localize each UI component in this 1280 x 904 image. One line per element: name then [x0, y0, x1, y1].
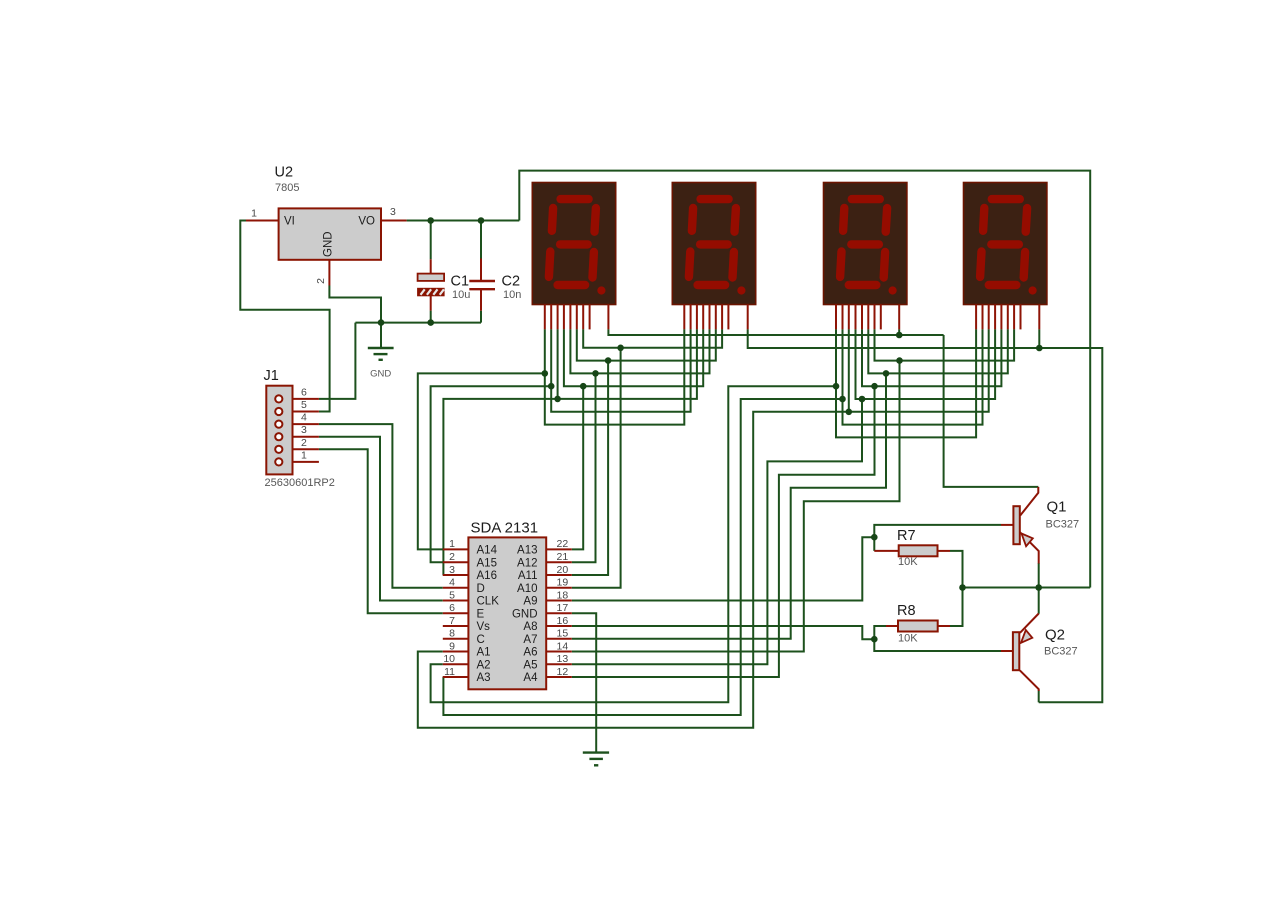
pin stub U1 pin 19 right	[546, 587, 572, 589]
junction D3.com on commons1	[896, 332, 903, 339]
pin stub U2 pin2	[328, 260, 330, 286]
svg-text:10K: 10K	[898, 556, 918, 568]
connector J1 25630601RP2	[264, 368, 335, 489]
wire wire Q2 collector drop	[1038, 691, 1040, 703]
wire wire net seg-f D1.f bus to D2.f	[577, 329, 716, 360]
svg-text:Q1: Q1	[1047, 499, 1067, 516]
ground symbol near U2	[368, 348, 394, 380]
svg-text:10u: 10u	[452, 289, 470, 301]
junction R7 +5V riser	[959, 584, 966, 591]
wire wire U2 pin2 GND to junction and GND symbol	[329, 286, 381, 349]
junction A12 riser on seg-e bus	[592, 370, 599, 377]
wire wire net seg-c A16 riser D1.c to D2.c	[443, 329, 697, 575]
junction C2 on VO row	[478, 217, 485, 224]
svg-text:A11: A11	[518, 570, 538, 582]
junction seg2-b at D3.b	[839, 396, 846, 403]
junction D4.com on commons2	[1036, 345, 1043, 352]
junction GND row at x381	[378, 319, 385, 326]
pin stub U1 pin 21 right	[546, 561, 572, 563]
pin stub U1 pin 8 left	[443, 638, 469, 640]
svg-text:A12: A12	[517, 557, 537, 569]
svg-text:R7: R7	[897, 528, 916, 544]
Q2 emitter lead	[1020, 614, 1039, 633]
pin stub U1 pin 20 right	[546, 574, 572, 576]
wire wire IC pin17 GND to bottom ground	[572, 613, 596, 752]
junction A11 riser on seg-f bus	[605, 357, 612, 364]
pin stub U1 pin 6 left	[443, 612, 469, 614]
svg-text:1: 1	[251, 208, 257, 220]
svg-text:U2: U2	[275, 165, 294, 181]
junction A14 riser on D1.a	[542, 370, 549, 377]
pin stub U1 pin 13 right	[546, 663, 572, 665]
svg-text:GND: GND	[512, 608, 538, 620]
capacitor C2 10n	[469, 274, 521, 302]
junction seg2-a at D3.a	[833, 383, 840, 390]
wire wire net seg2-b A3 wrap to D3.b	[443, 399, 843, 715]
wire wire net seg-e A12 riser	[572, 373, 596, 562]
svg-text:17: 17	[557, 602, 569, 614]
wire wire net seg-f A11 riser	[572, 361, 608, 575]
ground symbol below U1	[583, 753, 609, 766]
junction Q2 base riser	[871, 636, 878, 643]
pin stub J1 pin 4	[284, 423, 319, 425]
junction A4 riser on seg2-e	[871, 383, 878, 390]
svg-text:21: 21	[557, 551, 569, 563]
svg-text:9: 9	[449, 640, 455, 652]
junction A6 riser on seg2-g	[896, 357, 903, 364]
svg-text:13: 13	[557, 653, 569, 665]
wire wire net seg-d D1.d bus to D2.d	[564, 329, 703, 386]
pin stub U1 pin 5 left	[443, 600, 469, 602]
wire wire net seg-e D1.e bus to D2.e	[570, 329, 709, 373]
pin stub U1 pin 4 left	[443, 587, 469, 589]
junction C1 on VO row	[427, 217, 434, 224]
lead C2 bottom	[480, 289, 482, 311]
svg-text:1: 1	[301, 449, 307, 461]
svg-text:SDA 2131: SDA 2131	[471, 520, 539, 537]
svg-text:6: 6	[301, 386, 307, 398]
resistor R8 10K	[897, 603, 938, 645]
svg-text:A3: A3	[477, 672, 491, 684]
svg-text:15: 15	[557, 628, 569, 640]
svg-text:16: 16	[557, 615, 569, 627]
wire wire C1 bottom lead	[430, 311, 432, 323]
svg-text:10: 10	[443, 653, 455, 665]
wire wire net seg-d A13 riser	[572, 386, 583, 549]
Q2 collector lead	[1020, 670, 1039, 691]
junction A5 riser on seg2-d	[859, 396, 866, 403]
svg-text:Q2: Q2	[1045, 627, 1065, 644]
svg-text:A5: A5	[523, 659, 537, 671]
wire wire net seg2-c A1 wrap to D3.c D4.c	[418, 329, 989, 727]
pin stub J1 pin 6	[284, 398, 319, 400]
svg-text:A4: A4	[523, 672, 538, 684]
Q1 collector lead	[1020, 487, 1038, 516]
pin stub U1 pin 17 right	[546, 612, 572, 614]
wire wire Q1 emitter to +5V row	[1038, 563, 1040, 588]
svg-text:10n: 10n	[503, 289, 521, 301]
junction Q1 emitter on +5V row	[1035, 584, 1042, 591]
svg-text:14: 14	[557, 640, 569, 652]
wire wire net seg2-b D3.b drop and bus to D4.b	[843, 329, 983, 424]
pin stub U1 pin 12 right	[546, 676, 572, 678]
pin stub U1 pin 7 left	[443, 625, 469, 627]
7-segment display DS4	[964, 183, 1047, 330]
lead R8 left	[886, 625, 898, 627]
Q1 emitter lead	[1020, 532, 1039, 563]
pin stub U2 pin3	[381, 220, 407, 222]
wire wire net seg2-d A5 riser	[572, 399, 862, 664]
junction Q1 base riser	[871, 534, 878, 541]
svg-text:2: 2	[301, 437, 307, 449]
junction A13 riser on seg-d bus	[580, 383, 587, 390]
svg-text:25630601RP2: 25630601RP2	[265, 477, 335, 489]
svg-text:20: 20	[557, 564, 569, 576]
wire wire A8 row to Q2 base network	[572, 626, 875, 639]
svg-text:12: 12	[557, 666, 569, 678]
pin stub J1 pin 2	[284, 448, 319, 450]
svg-text:A16: A16	[477, 570, 497, 582]
pin stub U1 pin 1 left	[443, 548, 469, 550]
pin stub U1 pin 3 left	[443, 574, 469, 576]
svg-text:A8: A8	[523, 621, 537, 633]
svg-text:8: 8	[449, 628, 455, 640]
svg-text:A2: A2	[477, 659, 491, 671]
wire wire +5V top rail	[519, 171, 1090, 588]
wire wire net seg2-a A2 wrap to D3.a D4.a	[431, 386, 836, 702]
svg-text:A9: A9	[523, 596, 537, 608]
Q1 base stub	[1001, 524, 1013, 526]
wire wire Q2 emitter from +5V row	[1038, 588, 1040, 614]
svg-text:E: E	[477, 608, 485, 620]
junction A10 riser on seg-g bus	[617, 345, 624, 352]
transistor Q1 BC327 PNP	[1013, 499, 1079, 547]
svg-text:18: 18	[557, 589, 569, 601]
wire wire net seg2-f A7 riser	[572, 373, 886, 638]
wire wire C2 bottom lead	[480, 311, 482, 323]
pin stub U1 pin 10 left	[443, 663, 469, 665]
svg-text:11: 11	[444, 666, 455, 678]
voltage regulator U2 7805	[251, 165, 396, 284]
wire wire D3.com drop to commons1 row	[898, 329, 900, 335]
wire wire VO row U2 pin3 to C1 C2 and rail riser	[407, 220, 520, 222]
svg-text:5: 5	[301, 399, 307, 411]
pin stub J1 pin 3	[284, 436, 319, 438]
pin stub U1 pin 11 left	[443, 676, 469, 678]
pin stub J1 pin 5	[284, 411, 319, 413]
svg-text:R8: R8	[897, 603, 916, 619]
svg-text:A1: A1	[477, 647, 491, 659]
pin stub U1 pin 22 right	[546, 548, 572, 550]
junction C1 bottom on GND row	[427, 319, 434, 326]
wire wire commons2 D2.com to Q2 collector	[748, 329, 1103, 702]
svg-text:A14: A14	[477, 545, 498, 557]
wire wire commons1 riser to Q1 collector row	[944, 335, 1039, 487]
svg-text:GND: GND	[370, 369, 391, 380]
svg-text:Vs: Vs	[477, 621, 491, 633]
Q2 base stub	[1001, 650, 1013, 652]
wire wire net seg2-g A6 riser	[572, 361, 900, 652]
svg-text:6: 6	[449, 602, 455, 614]
svg-text:C1: C1	[451, 274, 470, 290]
lead R7 right	[938, 550, 951, 552]
svg-text:19: 19	[557, 577, 569, 589]
wire wire +5V row to Q1 Q2 emitters	[963, 587, 1091, 589]
pin stub J1 pin 1	[284, 461, 319, 463]
wire wire C1 top lead	[430, 221, 432, 260]
pin stub U1 pin 14 right	[546, 651, 572, 653]
transistor Q2 BC327 PNP	[1013, 627, 1078, 671]
lead C2 top	[480, 259, 482, 282]
pin stub U1 pin 16 right	[546, 625, 572, 627]
wire wire net seg2-g D3.g jog and bus to D4.g	[875, 329, 1015, 360]
svg-text:GND: GND	[323, 231, 335, 257]
svg-text:C2: C2	[502, 274, 521, 290]
pin stub U1 pin 2 left	[443, 561, 469, 563]
wire wire net seg2-c D3.c pin drop	[848, 329, 850, 411]
wire wire net seg-a A14 riser	[418, 373, 545, 549]
svg-text:3: 3	[449, 564, 455, 576]
lead R7 left	[874, 550, 898, 552]
wire wire C2 top lead	[480, 221, 482, 259]
svg-text:C: C	[477, 634, 485, 646]
7-segment display DS3	[824, 183, 907, 330]
7-segment display DS2	[672, 183, 755, 330]
lead C1 bottom	[430, 296, 432, 311]
svg-text:10K: 10K	[898, 633, 918, 645]
svg-text:7: 7	[449, 615, 455, 627]
svg-text:A10: A10	[517, 583, 537, 595]
svg-text:A13: A13	[517, 545, 537, 557]
svg-text:4: 4	[449, 577, 455, 589]
pin stub U2 pin1	[246, 220, 279, 222]
resistor R7 10K	[897, 528, 938, 568]
pin stub U1 pin 9 left	[443, 651, 469, 653]
svg-text:7805: 7805	[275, 182, 299, 194]
wire wire net seg2-d D3.d jog and bus to D4.d	[856, 329, 996, 399]
pin stub U1 pin 15 right	[546, 638, 572, 640]
IC U1 SDA 2131	[443, 520, 568, 690]
capacitor C1 10u electrolytic	[418, 274, 471, 302]
svg-text:A7: A7	[523, 634, 537, 646]
wire wire net seg-a D1.a bus to D2.a	[545, 329, 685, 424]
wire wire net seg2-a D3.a drop and bus to D4.a	[836, 329, 976, 437]
pin stub U1 pin 18 right	[546, 600, 572, 602]
svg-text:4: 4	[301, 412, 307, 424]
junction D1.c on seg-c bus	[554, 396, 561, 403]
wire wire net seg-g A10 riser	[572, 348, 621, 588]
svg-text:D: D	[477, 583, 485, 595]
svg-text:2: 2	[315, 278, 327, 284]
svg-text:22: 22	[557, 538, 569, 550]
wire wire J1 pin4 to IC pin4 D	[319, 424, 443, 588]
svg-text:BC327: BC327	[1046, 519, 1080, 531]
wire wire net seg-c D1.c pin drop	[557, 329, 559, 399]
wire wire commons1 D1.com to Q1 collector riser	[608, 329, 943, 335]
wire wire net seg-g D1.g bus to D2.g	[583, 329, 722, 347]
junction A7 riser on seg2-f	[883, 370, 890, 377]
junction D3.c on seg2-c bus	[846, 409, 853, 416]
svg-text:3: 3	[390, 206, 396, 218]
lead R8 right	[938, 625, 950, 627]
svg-text:5: 5	[449, 589, 455, 601]
wire wire net seg2-e D3.e jog and bus to D4.e	[862, 329, 1001, 386]
svg-text:VI: VI	[284, 216, 295, 228]
lead C1 top	[430, 259, 432, 273]
svg-text:VO: VO	[358, 216, 375, 228]
wire wire GND row to C1 C2	[355, 322, 481, 324]
wire wire U2 pin1 VI to J1 pin5	[240, 221, 329, 412]
wire wire R7-right R8-right +5V link	[950, 551, 963, 626]
wire wire J1 pin2 to IC pin6 E	[319, 449, 443, 613]
svg-text:1: 1	[449, 538, 455, 550]
wire wire Q2 base row and R8-left riser	[874, 626, 1001, 651]
svg-text:A6: A6	[523, 647, 537, 659]
7-segment display DS1	[532, 183, 615, 330]
svg-text:J1: J1	[264, 368, 279, 384]
wire wire D4.com drop to commons2 row	[1038, 329, 1040, 348]
svg-text:3: 3	[301, 424, 307, 436]
wire wire net seg2-e A4 riser	[572, 386, 875, 677]
wire wire A9 row to Q1 base network	[572, 537, 875, 600]
svg-text:A15: A15	[477, 557, 497, 569]
wire wire net seg-b D1.b bus to D2.b	[551, 329, 690, 411]
svg-text:CLK: CLK	[477, 596, 500, 608]
svg-text:BC327: BC327	[1044, 646, 1078, 658]
junction A15 riser on D1.b	[548, 383, 555, 390]
svg-text:2: 2	[449, 551, 455, 563]
wire wire Q1 base row and R7-left riser	[874, 525, 1001, 551]
wire wire J1 pin6 to GND row	[319, 323, 356, 399]
wire wire net seg-b A15 riser	[431, 386, 552, 562]
wire wire net seg2-f D3.f jog and bus to D4.f	[868, 329, 1008, 373]
wire wire J1 pin3 to IC pin5 CLK	[319, 437, 443, 601]
